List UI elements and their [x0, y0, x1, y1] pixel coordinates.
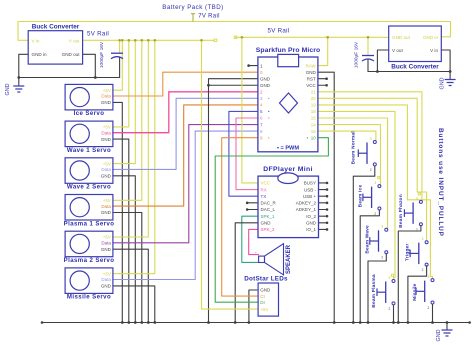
svg-text:IO_2: IO_2 [306, 214, 316, 219]
svg-text:1000µF 16V: 1000µF 16V [99, 41, 105, 68]
svg-text:Beam Ice: Beam Ice [357, 185, 363, 208]
svg-text:RX: RX [261, 187, 267, 192]
svg-text:Data: Data [101, 130, 111, 135]
svg-text:DFPlayer Mini: DFPlayer Mini [263, 166, 313, 173]
svg-text:GND: GND [101, 100, 112, 105]
svg-text:DAC_R: DAC_R [261, 201, 277, 206]
svg-text:+5V: +5V [260, 307, 268, 312]
svg-text:GND: GND [101, 210, 112, 215]
svg-text:Wave 2 Servo: Wave 2 Servo [67, 184, 111, 191]
svg-text:+: + [255, 251, 257, 255]
svg-text:RST: RST [307, 76, 316, 81]
svg-text:GND: GND [260, 83, 271, 88]
svg-text:+5V: +5V [103, 235, 111, 240]
svg-text:3: 3 [389, 276, 391, 280]
svg-text:DI: DI [260, 300, 265, 305]
svg-text:GND: GND [260, 76, 271, 81]
svg-text:GND: GND [440, 77, 446, 89]
svg-text:Missile Servo: Missile Servo [67, 294, 111, 301]
svg-text:SPK_2: SPK_2 [261, 227, 276, 232]
svg-text:GND: GND [101, 284, 112, 289]
svg-text:SPK_1: SPK_1 [261, 214, 276, 219]
svg-text:USB +: USB + [303, 194, 317, 199]
svg-text:15: 15 [311, 116, 317, 121]
svg-text:IO_1: IO_1 [306, 227, 316, 232]
svg-text:2: 2 [422, 268, 424, 272]
svg-text:Ice Servo: Ice Servo [74, 110, 105, 117]
svg-text:7V Rail: 7V Rail [198, 14, 219, 20]
svg-text:• = PWM: • = PWM [277, 145, 299, 151]
svg-text:V in: V in [430, 48, 438, 53]
svg-text:GND: GND [101, 174, 112, 179]
svg-text:VCC: VCC [261, 181, 271, 186]
svg-text:TX: TX [261, 194, 267, 199]
svg-text:Buck Converter: Buck Converter [32, 24, 80, 31]
svg-text:+5V: +5V [103, 88, 111, 93]
svg-text:Plasma 1 Servo: Plasma 1 Servo [64, 220, 115, 227]
svg-text:2: 2 [374, 212, 376, 216]
svg-text:21: 21 [311, 90, 317, 95]
svg-text:V out: V out [69, 38, 80, 43]
svg-text:20: 20 [311, 96, 317, 101]
svg-text:3: 3 [374, 181, 376, 185]
svg-text:2: 2 [428, 306, 430, 310]
svg-text:3: 3 [416, 197, 418, 201]
svg-text:2: 2 [381, 256, 383, 260]
svg-text:2: 2 [416, 228, 418, 232]
svg-text:GND out: GND out [62, 52, 81, 57]
svg-text:GND: GND [306, 70, 317, 75]
svg-text:USB -: USB - [304, 187, 317, 192]
svg-text:10: 10 [311, 135, 317, 140]
svg-text:Beam Phazon: Beam Phazon [398, 194, 404, 228]
svg-text:+5V: +5V [103, 125, 111, 130]
svg-text:GND in: GND in [32, 52, 48, 57]
svg-text:Plasma 2 Servo: Plasma 2 Servo [64, 257, 115, 264]
svg-text:3: 3 [370, 137, 372, 141]
svg-text:DAC_L: DAC_L [261, 207, 276, 212]
svg-text:VCC: VCC [306, 83, 316, 88]
svg-text:3: 3 [381, 225, 383, 229]
svg-text:2: 2 [389, 307, 391, 311]
svg-text:Missile: Missile [412, 283, 418, 301]
svg-text:+5V: +5V [103, 271, 111, 276]
svg-text:SPEAKER: SPEAKER [286, 244, 292, 274]
svg-text:Trigger: Trigger [405, 243, 411, 261]
svg-text:3: 3 [428, 275, 430, 279]
svg-text:2: 2 [370, 168, 372, 172]
svg-text:GND out: GND out [392, 35, 411, 40]
svg-text:Buck Converter: Buck Converter [391, 64, 439, 71]
svg-text:V out: V out [392, 48, 403, 53]
svg-text:18: 18 [311, 109, 317, 114]
svg-text:V in: V in [32, 38, 40, 43]
svg-text:Buttons use INPUT_PULLUP: Buttons use INPUT_PULLUP [437, 128, 444, 237]
svg-text:ADKEY_1: ADKEY_1 [296, 207, 317, 212]
svg-text:GND: GND [101, 247, 112, 252]
svg-text:14: 14 [311, 122, 317, 127]
svg-text:GND: GND [101, 137, 112, 142]
svg-text:+5V: +5V [103, 198, 111, 203]
svg-text:Beam Wave: Beam Wave [364, 225, 370, 254]
svg-text:Data: Data [101, 241, 111, 246]
svg-text:Data: Data [101, 94, 111, 99]
svg-text:Beam Normal: Beam Normal [350, 131, 356, 164]
svg-text:Data: Data [101, 167, 111, 172]
svg-text:RAW: RAW [305, 63, 316, 68]
svg-text:CI: CI [260, 294, 265, 299]
svg-text:5V Rail: 5V Rail [87, 31, 109, 38]
svg-text:Data: Data [101, 204, 111, 209]
svg-text:Wave 1 Servo: Wave 1 Servo [67, 147, 111, 154]
svg-text:BUSY: BUSY [304, 181, 316, 186]
svg-text:Beam Plasma: Beam Plasma [371, 274, 377, 308]
svg-text:GND: GND [261, 221, 272, 226]
svg-text:3: 3 [422, 237, 424, 241]
svg-text:5V Rail: 5V Rail [267, 28, 289, 35]
svg-text:Data: Data [101, 277, 111, 282]
svg-text:1000µF 16V: 1000µF 16V [354, 41, 360, 68]
svg-text:ADKEY_2: ADKEY_2 [296, 201, 317, 206]
svg-text:GND: GND [436, 329, 442, 341]
svg-text:GND: GND [5, 83, 11, 95]
svg-text:Battery Pack (TBD): Battery Pack (TBD) [162, 4, 223, 11]
svg-text:+5V: +5V [103, 161, 111, 166]
svg-text:GND: GND [260, 288, 271, 293]
svg-text:19: 19 [311, 103, 317, 108]
svg-text:GND: GND [306, 221, 317, 226]
svg-text:DotStar LEDs: DotStar LEDs [244, 276, 288, 283]
svg-text:16: 16 [311, 129, 317, 134]
svg-text:GND in: GND in [423, 35, 439, 40]
svg-text:Sparkfun Pro Micro: Sparkfun Pro Micro [256, 47, 321, 54]
